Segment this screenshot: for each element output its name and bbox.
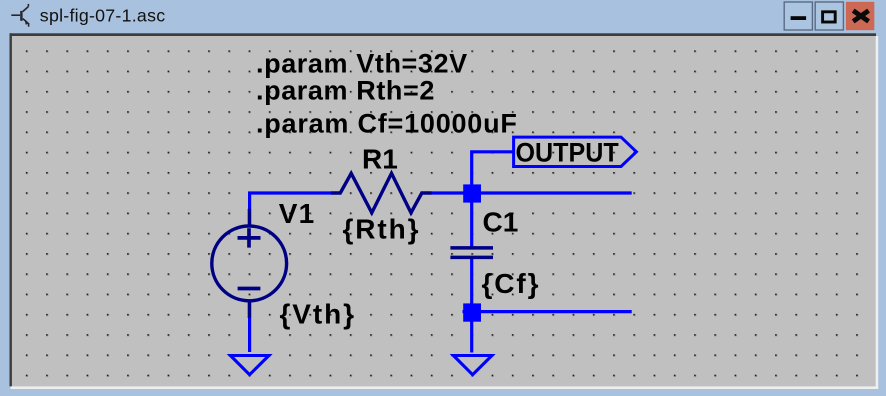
svg-text:spl-fig-07-1.asc: spl-fig-07-1.asc — [40, 6, 166, 26]
svg-text:.param Vth=32V: .param Vth=32V — [256, 48, 468, 78]
svg-text:V1: V1 — [279, 198, 316, 229]
svg-text:{Rth}: {Rth} — [343, 214, 421, 245]
svg-text:{Cf}: {Cf} — [482, 268, 541, 299]
svg-text:{Vth}: {Vth} — [280, 299, 356, 330]
svg-text:.param Rth=2: .param Rth=2 — [256, 76, 435, 106]
svg-text:C1: C1 — [483, 206, 519, 237]
svg-text:OUTPUT: OUTPUT — [516, 137, 619, 168]
svg-text:.param Cf=10000uF: .param Cf=10000uF — [256, 108, 518, 138]
svg-text:R1: R1 — [362, 144, 398, 175]
